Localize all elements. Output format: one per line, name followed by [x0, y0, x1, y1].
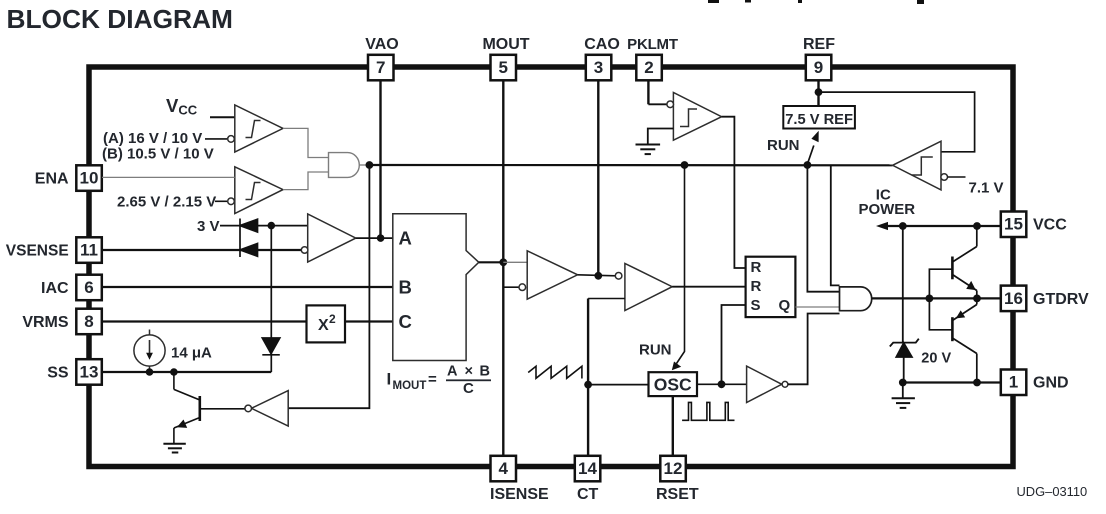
wire OSC to RS latch S input [722, 305, 746, 384]
svg-text:15: 15 [1004, 215, 1023, 234]
wire ENA pin to U2 [102, 176, 235, 178]
comparator U9 (peak limit) [667, 93, 722, 141]
comparator U7 (PWM) [615, 263, 672, 310]
wire SS pin rail [102, 371, 271, 373]
ground for U9 [636, 145, 661, 155]
svg-text:13: 13 [80, 362, 99, 381]
svg-text:6: 6 [84, 278, 93, 297]
svg-text:ISENSE: ISENSE [490, 486, 549, 503]
pin 16 [1001, 286, 1027, 312]
pin 3 [586, 55, 612, 81]
svg-text:C: C [399, 311, 412, 332]
wire zener branch [902, 226, 904, 343]
UVLO comparator U1 (VCC schmitt) [228, 105, 283, 152]
pin 2 [636, 55, 662, 81]
svg-text:1: 1 [1009, 373, 1018, 392]
node RUN/switch tap [804, 161, 812, 169]
ENA comparator U2 (2.65V schmitt) [228, 167, 283, 214]
wire RUN corner down to AND G2 input 1 [831, 165, 840, 285]
svg-text:ENA: ENA [35, 171, 73, 188]
svg-text:VAO: VAO [365, 36, 398, 53]
wire threshold to U2 inverting input [215, 200, 227, 202]
node CT [584, 381, 592, 389]
node GND/totem bottom [973, 379, 981, 387]
pin 14 [575, 456, 601, 482]
RUN rail wire across to U5 output [369, 164, 892, 167]
svg-text:5: 5 [498, 58, 507, 77]
wire OSC output [697, 383, 747, 385]
pin 5 [491, 55, 517, 81]
node GND/zener [899, 379, 907, 387]
wire IAC pin to multiplier B input [102, 286, 393, 288]
svg-text:X: X [318, 317, 329, 334]
node VAO/A [377, 234, 385, 242]
wire D1 to node and comparator U4 + input [258, 225, 308, 227]
wire multiplier output to MOUT rail [479, 261, 504, 263]
comparator U4 (voltage amp) [301, 214, 355, 262]
wire RUN to OSC with arrow [677, 165, 685, 364]
current source I1 14uA [134, 330, 165, 373]
svg-text:VCC: VCC [1033, 217, 1067, 234]
svg-text:=: = [428, 371, 437, 388]
wire G1 output to RUN node [359, 164, 369, 166]
node RUN/OSC tap [681, 161, 689, 169]
svg-text:VSENSE: VSENSE [6, 243, 73, 260]
svg-text:14: 14 [578, 459, 597, 478]
wire base rail to transistors [929, 269, 952, 330]
wire CT ramp to U7 + input [588, 298, 625, 300]
inverter U3 (SS reset) [245, 391, 288, 427]
node OSC output [718, 380, 726, 388]
svg-text:CAO: CAO [584, 36, 620, 53]
diode D2 (VSENSE clamp) [240, 244, 258, 257]
node MOUT [499, 258, 507, 266]
wire U2 output to AND gate G1 [283, 172, 329, 190]
svg-text:R: R [751, 278, 762, 295]
transistor Q1 (SS discharge) [174, 372, 200, 444]
node SS/current source [146, 368, 154, 376]
svg-text:B: B [480, 364, 490, 380]
wire VSENSE pin to U4 inverting input [102, 249, 302, 251]
svg-text:(B) 10.5 V / 10 V: (B) 10.5 V / 10 V [102, 146, 214, 163]
wire 3V to diode D1 [220, 225, 240, 227]
wire pin12 RSET up to OSC [672, 396, 674, 456]
wire pin2 PKLMT down [647, 80, 649, 104]
transistor Q2 (NPN pull-up) [952, 226, 976, 298]
wire VRMS pin to squarer [102, 320, 307, 322]
svg-text:8: 8 [84, 312, 93, 331]
wire REF to U5 input [819, 92, 975, 152]
svg-text:PKLMT: PKLMT [627, 36, 678, 53]
svg-text:REF: REF [803, 36, 835, 53]
pin 10 [76, 165, 102, 191]
svg-text:SS: SS [47, 364, 73, 381]
pin 8 [76, 309, 102, 335]
wire ISENSE tap to U6 inverting input [503, 286, 519, 288]
wire squarer to multiplier C input [345, 320, 393, 322]
transistor Q3 (PNP pull-down) [952, 298, 976, 382]
svg-text:4: 4 [498, 459, 508, 478]
svg-text:C: C [463, 380, 474, 397]
svg-text:2: 2 [329, 312, 336, 326]
multiplier block M1 [393, 214, 479, 361]
svg-text:MOUT: MOUT [393, 380, 427, 392]
svg-text:CT: CT [577, 486, 599, 503]
pin 9 [806, 55, 832, 81]
pin 6 [76, 275, 102, 301]
svg-text:OSC: OSC [654, 375, 692, 395]
wire pin14 CT up [587, 299, 589, 457]
svg-text:10: 10 [80, 169, 99, 188]
diode D3 [262, 338, 280, 355]
pin 11 [76, 237, 102, 262]
svg-text:POWER: POWER [858, 201, 915, 218]
svg-text:7.5 V REF: 7.5 V REF [785, 112, 853, 128]
wire U4 output to multiplier A input [356, 237, 393, 239]
svg-text:S: S [751, 297, 761, 314]
node G2/base rail [926, 295, 934, 303]
svg-text:3: 3 [594, 58, 603, 77]
pin 13 [76, 359, 102, 385]
wire D3 branch down to SS rail [270, 226, 272, 372]
svg-text:VRMS: VRMS [22, 314, 73, 331]
pin 4 [491, 456, 517, 482]
svg-text:GND: GND [1033, 375, 1069, 392]
wire pin3 CAO down to comparator output node [597, 80, 599, 276]
inverter U8 (gate drive clock) [747, 366, 788, 402]
svg-text:(A) 16 V / 10 V: (A) 16 V / 10 V [103, 130, 202, 147]
pin 7 [368, 55, 394, 81]
node VCC/zener [899, 222, 907, 230]
cropped text fragments at top edge [708, 0, 924, 4]
block 7.5 V REF [783, 106, 855, 129]
wire Q output to AND G2 [795, 306, 839, 308]
square wave waveform [682, 402, 734, 420]
zener D4 20V [890, 339, 919, 383]
comparator U5 (REF good, 7.1V) [893, 141, 948, 190]
wire MOUT node to comparator U6 + input [503, 261, 527, 263]
wire threshold to U1 inverting input [205, 138, 227, 140]
svg-text:RSET: RSET [656, 486, 699, 503]
svg-text:7: 7 [376, 58, 385, 77]
wire Q1 base to inverter U3 [201, 408, 245, 410]
formula I_MOUT = A x B / C [387, 364, 492, 397]
wire CT node to OSC [588, 384, 648, 386]
comparator U6 (current amp) [519, 251, 578, 299]
wire U7 output to RS latch R input [672, 286, 745, 288]
wire VCC rail with IC POWER arrow [888, 225, 1001, 227]
node REF [815, 88, 823, 96]
node SS/Q1 collector [170, 368, 178, 376]
squarer X^2 block [307, 305, 346, 342]
wire pin9 REF down [817, 80, 819, 106]
svg-text:I: I [387, 370, 392, 389]
wire VCC to UVLO comparator U1 [210, 116, 235, 118]
svg-text:11: 11 [80, 241, 98, 260]
svg-text:GTDRV: GTDRV [1033, 291, 1089, 308]
svg-text:RUN: RUN [767, 137, 800, 154]
svg-text:7.1 V: 7.1 V [969, 180, 1004, 197]
RS latch [746, 257, 796, 317]
node RUN at G1 output [366, 161, 374, 169]
wire G2 output to totem pole [872, 297, 977, 299]
svg-text:A: A [447, 364, 458, 380]
wire RUN down to AND G2 input 2 [807, 165, 839, 292]
diode D1 (3V clamp) [240, 219, 258, 258]
pin 12 [660, 456, 686, 482]
switch RUN to 7.5V REF [807, 146, 813, 165]
wire pin7 VAO down to node A [379, 80, 381, 238]
svg-text:MOUT: MOUT [482, 36, 529, 53]
pin 15 [1001, 212, 1027, 238]
wire U1 output to AND gate G1 [283, 128, 329, 157]
svg-text:BLOCK DIAGRAM: BLOCK DIAGRAM [7, 4, 233, 34]
node D1/D3 [268, 222, 276, 230]
svg-text:IAC: IAC [41, 280, 73, 297]
wire GND rail [903, 381, 1001, 383]
AND gate G2 (gate driver) [840, 287, 872, 311]
svg-text:RUN: RUN [639, 342, 672, 359]
ground for Q1 [163, 444, 185, 453]
node CAO [594, 272, 602, 280]
svg-text:9: 9 [814, 58, 823, 77]
wire PKLMT pin to U9 inverting input [648, 103, 667, 105]
AND gate G1 [329, 153, 360, 178]
OSC block [649, 372, 698, 396]
IC boundary box [89, 67, 1013, 467]
pin 1 [1001, 370, 1027, 396]
svg-text:14 μA: 14 μA [171, 345, 212, 362]
sawtooth waveform [528, 366, 582, 378]
wire RUN down to inverter U3 input [288, 165, 369, 408]
wire pin5 MOUT down to pin4 ISENSE [502, 80, 504, 456]
svg-text:Q: Q [779, 297, 791, 314]
wire ground to U9 + input [648, 129, 674, 144]
svg-text:12: 12 [664, 459, 683, 478]
svg-text:B: B [399, 277, 412, 298]
svg-text:×: × [465, 364, 473, 380]
svg-text:16: 16 [1004, 289, 1023, 308]
svg-text:20 V: 20 V [921, 351, 951, 367]
node VCC/totem top [973, 222, 981, 230]
wire U8 output up to AND G2 [788, 314, 840, 385]
svg-text:R: R [751, 259, 762, 276]
svg-text:UDG–03110: UDG–03110 [1017, 484, 1088, 499]
wire U5 inverting input to 7.1V [947, 176, 965, 178]
svg-text:3 V: 3 V [197, 218, 220, 235]
svg-text:2.65 V / 2.15 V: 2.65 V / 2.15 V [117, 194, 216, 211]
wire U6 output to U7 [578, 275, 616, 276]
ground for GND rail [892, 383, 915, 408]
wire GTDRV node to pin 16 [977, 297, 1001, 299]
svg-text:2: 2 [644, 58, 653, 77]
node GTDRV [973, 295, 981, 303]
svg-text:A: A [399, 228, 412, 249]
wire U9 output to RS latch R1 input [722, 117, 746, 268]
